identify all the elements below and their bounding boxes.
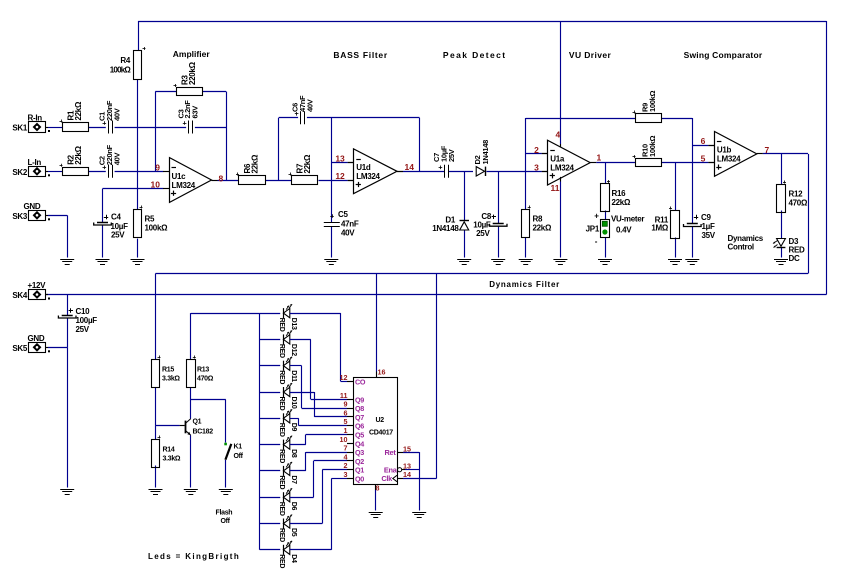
- svg-text:1: 1: [344, 426, 348, 435]
- svg-text:11: 11: [551, 183, 560, 193]
- svg-text:RED: RED: [278, 344, 285, 358]
- svg-text:8: 8: [219, 174, 224, 184]
- svg-text:100kΩ: 100kΩ: [648, 91, 657, 112]
- svg-text:Peak Detect: Peak Detect: [443, 50, 507, 60]
- svg-text:RED: RED: [278, 397, 285, 411]
- svg-text:9: 9: [344, 400, 348, 409]
- svg-text:25V: 25V: [476, 229, 490, 238]
- svg-text:100kΩ: 100kΩ: [648, 136, 657, 157]
- svg-text:16: 16: [378, 368, 386, 377]
- svg-text:Q8: Q8: [355, 404, 364, 413]
- svg-text:C5: C5: [338, 210, 348, 219]
- svg-text:RED: RED: [278, 318, 285, 332]
- svg-text:10: 10: [340, 435, 348, 444]
- svg-text:U2: U2: [376, 417, 385, 424]
- svg-text:R16: R16: [612, 189, 627, 198]
- svg-text:LM324: LM324: [550, 163, 574, 172]
- svg-text:RED: RED: [278, 449, 285, 463]
- svg-text:25V: 25V: [447, 149, 456, 162]
- svg-text:40V: 40V: [306, 99, 315, 112]
- svg-text:Q5: Q5: [355, 431, 364, 440]
- svg-text:D5: D5: [290, 528, 297, 537]
- svg-text:BASS Filter: BASS Filter: [333, 50, 387, 60]
- svg-text:25V: 25V: [76, 325, 90, 334]
- svg-text:C10: C10: [76, 307, 91, 316]
- svg-text:22kΩ: 22kΩ: [533, 224, 552, 233]
- svg-text:D13: D13: [290, 318, 297, 330]
- svg-text:VU-meter: VU-meter: [611, 215, 644, 224]
- svg-text:L-In: L-In: [28, 158, 42, 167]
- svg-text:Q1: Q1: [193, 419, 202, 426]
- svg-text:470Ω: 470Ω: [197, 376, 214, 383]
- svg-text:3: 3: [344, 470, 348, 479]
- svg-text:RED: RED: [278, 502, 285, 516]
- svg-text:12: 12: [335, 171, 345, 181]
- svg-text:Q2: Q2: [355, 457, 364, 466]
- svg-text:1µF: 1µF: [702, 222, 715, 231]
- svg-text:22kΩ: 22kΩ: [74, 145, 83, 164]
- svg-text:22kΩ: 22kΩ: [74, 101, 83, 120]
- svg-text:+12V: +12V: [28, 281, 47, 290]
- svg-text:RED: RED: [278, 554, 285, 568]
- svg-text:3.3kΩ: 3.3kΩ: [162, 376, 180, 383]
- svg-text:220kΩ: 220kΩ: [188, 61, 197, 85]
- svg-text:Leds = KingBrigth: Leds = KingBrigth: [148, 552, 240, 561]
- svg-text:RED: RED: [278, 370, 285, 384]
- svg-text:U1b: U1b: [717, 146, 732, 155]
- svg-text:LM324: LM324: [356, 172, 380, 181]
- svg-text:BC182: BC182: [193, 429, 214, 436]
- svg-text:SK3: SK3: [12, 212, 28, 221]
- svg-text:JP1: JP1: [586, 225, 600, 234]
- svg-text:RED: RED: [278, 475, 285, 489]
- svg-text:R8: R8: [533, 215, 543, 224]
- svg-text:RED: RED: [278, 528, 285, 542]
- svg-text:15: 15: [403, 445, 411, 454]
- svg-text:Swing Comparator: Swing Comparator: [684, 50, 763, 60]
- svg-text:8: 8: [376, 484, 380, 493]
- svg-text:D8: D8: [290, 449, 297, 458]
- svg-text:Q0: Q0: [355, 475, 364, 484]
- svg-text:U1d: U1d: [356, 163, 371, 172]
- svg-text:3: 3: [534, 162, 539, 172]
- svg-text:D4: D4: [290, 554, 297, 563]
- svg-text:R13: R13: [197, 367, 209, 374]
- svg-text:6: 6: [701, 136, 706, 146]
- svg-text:35V: 35V: [702, 231, 716, 240]
- svg-text:R12: R12: [789, 190, 804, 199]
- svg-text:12: 12: [340, 373, 348, 382]
- svg-text:25V: 25V: [111, 231, 125, 240]
- svg-text:+: +: [594, 212, 599, 221]
- svg-text:Q6: Q6: [355, 422, 364, 431]
- svg-text:D9: D9: [290, 423, 297, 432]
- svg-text:Q9: Q9: [355, 395, 364, 404]
- svg-text:6: 6: [344, 408, 348, 417]
- svg-text:K1: K1: [234, 444, 243, 451]
- svg-text:100kΩ: 100kΩ: [145, 224, 169, 233]
- svg-text:GND: GND: [24, 202, 41, 211]
- svg-text:C9: C9: [701, 213, 711, 222]
- svg-text:SK1: SK1: [12, 124, 28, 133]
- svg-text:U1c: U1c: [172, 172, 187, 181]
- svg-text:RED: RED: [278, 423, 285, 437]
- svg-text:22kΩ: 22kΩ: [251, 154, 260, 173]
- svg-text:100kΩ: 100kΩ: [110, 65, 132, 74]
- svg-text:Control: Control: [728, 243, 754, 252]
- svg-text:47nF: 47nF: [341, 220, 359, 229]
- svg-text:C4: C4: [111, 213, 121, 222]
- svg-text:R5: R5: [145, 215, 155, 224]
- svg-text:Off: Off: [234, 453, 244, 460]
- svg-text:Dynamics Filter: Dynamics Filter: [489, 280, 560, 289]
- svg-text:63V: 63V: [191, 106, 200, 119]
- svg-text:2: 2: [344, 461, 348, 470]
- svg-text:5: 5: [701, 154, 706, 164]
- svg-text:LM324: LM324: [172, 181, 196, 190]
- svg-text:470Ω: 470Ω: [789, 199, 808, 208]
- svg-text:D7: D7: [290, 475, 297, 484]
- svg-text:1MΩ: 1MΩ: [651, 224, 669, 233]
- svg-text:R-In: R-In: [28, 114, 43, 123]
- svg-text:9: 9: [155, 162, 160, 172]
- svg-text:GND: GND: [28, 334, 45, 343]
- svg-text:D10: D10: [290, 397, 297, 409]
- svg-text:40V: 40V: [341, 229, 355, 238]
- svg-text:5: 5: [344, 417, 348, 426]
- svg-text:22kΩ: 22kΩ: [612, 198, 631, 207]
- svg-text:D12: D12: [290, 344, 297, 356]
- svg-text:10: 10: [151, 180, 161, 190]
- svg-text:D6: D6: [290, 502, 297, 511]
- svg-text:7: 7: [765, 145, 770, 155]
- svg-text:SK2: SK2: [12, 168, 28, 177]
- svg-text:14: 14: [403, 470, 411, 479]
- svg-text:Ret: Ret: [384, 448, 396, 457]
- svg-text:SK5: SK5: [12, 344, 28, 353]
- svg-text:R15: R15: [162, 367, 174, 374]
- svg-text:Amplifier: Amplifier: [173, 49, 211, 59]
- svg-text:100µF: 100µF: [76, 316, 98, 325]
- svg-text:13: 13: [335, 154, 345, 164]
- svg-text:7: 7: [344, 444, 348, 453]
- svg-text:2: 2: [534, 145, 539, 155]
- svg-text:R14: R14: [163, 447, 175, 454]
- svg-text:R4: R4: [120, 56, 130, 65]
- svg-text:CO: CO: [355, 377, 366, 386]
- svg-text:14: 14: [405, 162, 415, 172]
- svg-text:DC: DC: [789, 254, 800, 263]
- svg-text:22kΩ: 22kΩ: [303, 154, 312, 173]
- svg-text:1N4148: 1N4148: [481, 140, 490, 165]
- svg-text:1N4148: 1N4148: [432, 224, 459, 233]
- svg-text:D11: D11: [290, 370, 297, 382]
- svg-text:11: 11: [340, 391, 348, 400]
- svg-text:0.4V: 0.4V: [616, 226, 632, 235]
- svg-text:40V: 40V: [113, 153, 122, 166]
- svg-text:Q1: Q1: [355, 466, 364, 475]
- svg-text:4: 4: [556, 130, 561, 140]
- svg-text:U1a: U1a: [550, 154, 565, 163]
- svg-text:40V: 40V: [113, 108, 122, 121]
- svg-text:Clk: Clk: [381, 474, 393, 483]
- svg-text:Off: Off: [221, 518, 231, 525]
- svg-text:-: -: [595, 237, 598, 246]
- svg-text:3.3kΩ: 3.3kΩ: [163, 456, 181, 463]
- svg-text:Q7: Q7: [355, 413, 364, 422]
- svg-text:4: 4: [344, 452, 348, 461]
- svg-text:LM324: LM324: [717, 155, 741, 164]
- svg-text:VU Driver: VU Driver: [569, 50, 612, 60]
- svg-text:Q4: Q4: [355, 439, 364, 448]
- svg-text:Flash: Flash: [216, 510, 233, 517]
- svg-text:CD4017: CD4017: [369, 430, 393, 437]
- svg-text:SK4: SK4: [12, 291, 28, 300]
- svg-text:Q3: Q3: [355, 448, 364, 457]
- svg-text:1: 1: [597, 153, 602, 163]
